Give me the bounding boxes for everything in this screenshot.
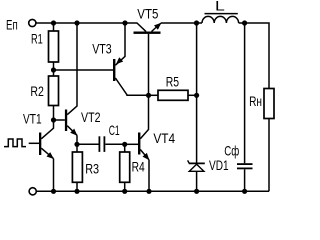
wire R1R2 junction to VT3 base bbox=[54, 69, 114, 71]
node VT5 base / R5 / VT4 collector bbox=[146, 93, 151, 98]
terminal input + bbox=[29, 19, 36, 26]
svg-text:R5: R5 bbox=[166, 75, 179, 90]
node bottom VT1 emitter bbox=[51, 189, 56, 194]
transistor VT5 bbox=[134, 23, 162, 96]
svg-text:Rн: Rн bbox=[249, 94, 262, 109]
node top rail VT2 collector tap bbox=[74, 20, 79, 25]
transistor VT1 bbox=[39, 120, 54, 191]
node bottom VT4 emitter bbox=[146, 189, 151, 194]
capacitor C1 bbox=[77, 136, 125, 152]
wire top rail to right corner bbox=[239, 23, 269, 89]
svg-text:Eп: Eп bbox=[6, 18, 18, 33]
capacitor Сф (filter) bbox=[237, 23, 253, 191]
svg-text:VT3: VT3 bbox=[92, 42, 112, 57]
resistor R1 bbox=[49, 23, 59, 76]
svg-text:R4: R4 bbox=[132, 159, 145, 174]
resistor R5 bbox=[149, 90, 197, 100]
svg-text:VT5: VT5 bbox=[137, 6, 158, 21]
node R1-R2 junction bbox=[51, 67, 56, 72]
node VT2 emitter / C1 / R3 bbox=[74, 142, 79, 147]
svg-text:Сф: Сф bbox=[224, 144, 239, 159]
node top rail VT3 emitter tap bbox=[122, 20, 127, 25]
svg-text:R2: R2 bbox=[30, 84, 44, 99]
svg-text:VD1: VD1 bbox=[209, 158, 229, 173]
svg-text:C1: C1 bbox=[109, 123, 120, 138]
transistor VT3 (PNP) bbox=[113, 23, 149, 95]
wire pulse to VT1 base bbox=[29, 142, 39, 144]
node C1 / R4 / VT4 base bbox=[122, 142, 127, 147]
node bottom R3 bbox=[74, 189, 79, 194]
wire top rail left bbox=[36, 22, 137, 24]
svg-text:L: L bbox=[215, 0, 225, 13]
pulse input symbol bbox=[4, 139, 26, 147]
svg-text:VT2: VT2 bbox=[81, 110, 101, 125]
node top rail before L bbox=[194, 20, 199, 25]
resistor Rн (load) bbox=[264, 89, 274, 192]
svg-text:VT4: VT4 bbox=[153, 131, 175, 146]
svg-text:VT1: VT1 bbox=[23, 111, 42, 126]
node R5 right / VD1 branch bbox=[194, 93, 199, 98]
wire top rail right of VT5 bbox=[161, 22, 202, 24]
resistor R3 bbox=[72, 144, 82, 191]
svg-text:R1: R1 bbox=[31, 32, 43, 47]
bottom rail wire bbox=[36, 190, 269, 192]
node bottom Сф bbox=[242, 189, 247, 194]
transistor VT2 bbox=[54, 23, 78, 144]
node bottom R4 bbox=[122, 189, 127, 194]
inductor L bbox=[202, 14, 239, 23]
resistor R2 bbox=[49, 76, 59, 120]
transistor VT4 bbox=[125, 95, 150, 191]
node bottom VD1 bbox=[194, 189, 199, 194]
svg-text:R3: R3 bbox=[85, 162, 99, 177]
node top rail after L bbox=[242, 20, 247, 25]
terminal input - bbox=[29, 188, 36, 195]
node VT1 collector / R2 / VT2 base bbox=[51, 117, 56, 122]
diode VD1 (zener) bbox=[188, 23, 205, 191]
resistor R4 bbox=[120, 144, 130, 191]
node top rail R1 tap bbox=[51, 20, 56, 25]
